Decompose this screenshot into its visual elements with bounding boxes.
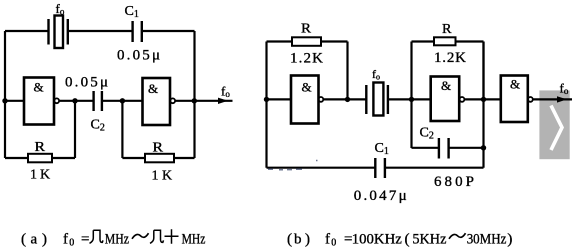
label 1.2K R4 (b)	[434, 50, 466, 66]
svg-text:C2: C2	[91, 118, 105, 134]
caption (a) tilde	[132, 233, 149, 239]
svg-text:0: 0	[331, 238, 336, 249]
label C2 (a)	[91, 118, 105, 134]
wire crystal to node (b)	[388, 98, 431, 100]
label fo crystal (a)	[56, 1, 65, 17]
watermark remnant dashes	[268, 161, 318, 170]
wire gate1 out to C2 (a)	[59, 100, 94, 102]
capacitor C1 0.047u (b) bottom loop	[267, 158, 484, 178]
svg-text:&: &	[510, 77, 520, 92]
nand gate U1 (a)	[24, 78, 59, 125]
caption (a) glyph ji2	[150, 230, 164, 243]
node A (a)	[72, 98, 77, 103]
gray next button	[539, 90, 569, 159]
label 0.05u C2 (a)	[65, 75, 108, 91]
svg-text:C2: C2	[420, 126, 434, 142]
svg-text:&: &	[441, 78, 451, 93]
resistor R3 loop top (b)	[267, 37, 348, 99]
nand gate U3 (b)	[291, 76, 323, 124]
svg-text:): )	[42, 232, 47, 248]
svg-text:a: a	[31, 232, 38, 248]
caption (b)	[287, 232, 512, 249]
wire vertical output node (b)	[482, 42, 484, 168]
resistor R4 loop top (b)	[412, 37, 484, 99]
svg-text:R: R	[442, 22, 452, 37]
svg-text:K: K	[40, 168, 50, 183]
svg-text:(: (	[287, 232, 292, 248]
svg-text:1.2K: 1.2K	[290, 51, 323, 67]
svg-text:R: R	[153, 141, 164, 156]
capacitor C2 (a)	[94, 91, 102, 111]
wire left vertical rail (b)	[265, 42, 267, 168]
caption (a)	[21, 232, 206, 249]
label fo crystal (b)	[372, 67, 380, 82]
svg-text:): )	[305, 232, 310, 248]
svg-text:MHz: MHz	[105, 232, 130, 248]
capacitor C2 680P (b)	[412, 138, 484, 159]
svg-text:fo: fo	[56, 1, 65, 17]
label fo output (b)	[560, 81, 569, 97]
label C2 (b)	[420, 126, 434, 142]
svg-text:(: (	[405, 232, 410, 248]
caption (a) glyph shi	[165, 229, 179, 244]
label C1 (b)	[375, 141, 389, 157]
svg-text:&: &	[302, 80, 312, 95]
resistor R2 (a)	[122, 154, 194, 163]
nand gate U2 (a)	[143, 78, 176, 125]
svg-text:0.05μ: 0.05μ	[65, 75, 108, 91]
node input gate B2	[409, 97, 414, 102]
wire node A down to R1 (a)	[74, 101, 76, 158]
wire C1 to right rail (a)	[142, 30, 195, 32]
svg-text:1.2K: 1.2K	[434, 50, 466, 66]
label R3 (b)	[301, 22, 312, 37]
nand gate U5 (b)	[501, 76, 533, 123]
label R4 (b)	[442, 22, 452, 37]
nand gate U4 (b)	[431, 77, 465, 122]
wire gate2 out to right rail (a)	[175, 100, 194, 102]
wire output arrow (a)	[195, 98, 233, 104]
label 0.047u (b)	[354, 188, 407, 204]
wire C2 to gate2 (a)	[102, 100, 143, 102]
wire gate B1 out to crystal	[323, 98, 366, 100]
svg-text:&: &	[148, 81, 158, 96]
label 0.05u C1 (a)	[117, 48, 160, 64]
wire gate B2 out to gate B3	[464, 98, 500, 100]
label 1K R1 (a)	[30, 168, 50, 183]
node output gate B2	[481, 97, 486, 102]
wire input gate B1	[267, 98, 292, 100]
label 680P (b)	[434, 174, 474, 190]
svg-text:30MHz: 30MHz	[467, 232, 507, 248]
svg-text:100KHz: 100KHz	[352, 232, 402, 248]
svg-text:=: =	[81, 232, 89, 248]
label 1.2K R3 (b)	[290, 51, 323, 67]
svg-text:C1: C1	[375, 141, 389, 157]
svg-text:(: (	[21, 232, 26, 248]
wire node B down to R2 (a)	[121, 101, 123, 158]
label R2 (a)	[153, 141, 164, 156]
node C2 right (b)	[481, 145, 486, 150]
node B (a)	[120, 98, 125, 103]
svg-text:680P: 680P	[434, 174, 474, 190]
svg-text:): )	[507, 232, 512, 248]
crystal fo (b)	[366, 83, 388, 116]
svg-text:R: R	[35, 140, 46, 155]
svg-text:MHz: MHz	[182, 232, 206, 248]
svg-text:&: &	[34, 80, 44, 95]
svg-text:0: 0	[69, 238, 74, 249]
svg-text:f: f	[63, 232, 68, 248]
capacitor C1 (a)	[133, 21, 142, 42]
wire output arrow (b)	[533, 96, 572, 102]
caption (a) glyph ji1	[90, 230, 104, 243]
label 1K R2 (a)	[152, 169, 173, 184]
svg-text:1: 1	[30, 168, 37, 183]
node crystal left (b)	[345, 97, 350, 102]
svg-text:K: K	[162, 169, 172, 184]
svg-text:0.047μ: 0.047μ	[354, 188, 407, 204]
label C1 (a)	[125, 4, 139, 20]
node input gate B1	[264, 97, 269, 102]
resistor R1 (a)	[5, 154, 75, 163]
svg-text:b: b	[294, 232, 302, 248]
svg-text:f: f	[325, 232, 330, 248]
svg-text:1: 1	[152, 169, 159, 184]
wire left vertical rail (a)	[4, 31, 6, 158]
node output (a)	[192, 98, 197, 103]
svg-text:C1: C1	[125, 4, 139, 20]
wire top segment left (a)	[5, 30, 49, 32]
svg-text:fo: fo	[372, 67, 380, 82]
wire crystal to C1 (a)	[68, 30, 133, 32]
svg-text:fo: fo	[221, 84, 230, 100]
caption (b) tilde	[449, 233, 466, 239]
svg-text:fo: fo	[560, 81, 569, 97]
svg-text:5KHz: 5KHz	[412, 232, 446, 248]
wire input to gate 1 (a)	[5, 100, 24, 102]
label fo output (a)	[221, 84, 230, 100]
svg-text:R: R	[301, 22, 312, 37]
label R1 (a)	[35, 140, 46, 155]
wire right vertical rail (a)	[193, 31, 195, 158]
node input gate1 (a)	[2, 98, 7, 103]
svg-text:0.05μ: 0.05μ	[117, 48, 160, 64]
wire vertical node B2 input	[410, 42, 412, 149]
crystal fo (a)	[49, 16, 68, 49]
